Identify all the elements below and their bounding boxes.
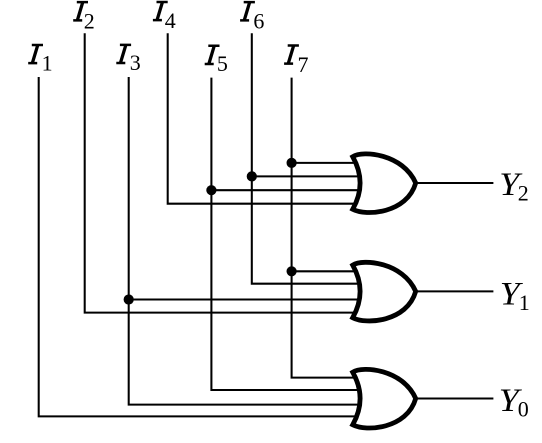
svg-text:0: 0 [518, 396, 529, 421]
svg-text:5: 5 [217, 51, 228, 76]
or-gate Y2 [353, 154, 416, 213]
junction dot I5/Y2 [206, 185, 216, 195]
wire I6 vertical + horizontal to OR gate Y1 input 2 [252, 33, 363, 283]
wire I6 branch to OR gate Y2 input 2 [252, 175, 363, 177]
junction dot I6/Y2 [247, 171, 257, 181]
wire I5 vertical + horizontal to OR gate Y0 input 2 [211, 78, 363, 390]
or-gate Y1 [353, 262, 416, 321]
label I6 [240, 1, 255, 22]
label I4 [153, 1, 168, 22]
svg-text:2: 2 [518, 180, 529, 205]
wire I7 branch to OR gate Y1 input 1 [292, 270, 363, 272]
wire output Y1 [413, 290, 493, 292]
wire I1 vertical + horizontal to OR gate Y0 input 4 [39, 77, 363, 416]
wire I3 branch to OR gate Y1 input 3 [129, 298, 363, 300]
junction dot I7/Y1 [287, 266, 297, 276]
svg-text:4: 4 [165, 8, 176, 33]
junction dot I7/Y2 [287, 158, 297, 168]
wire output Y2 [413, 182, 493, 184]
label I5 [205, 44, 220, 65]
junction dot I3/Y1 [124, 294, 134, 304]
label I3 [116, 44, 131, 65]
svg-text:6: 6 [253, 8, 264, 33]
svg-text:1: 1 [42, 51, 53, 76]
svg-text:2: 2 [84, 8, 95, 33]
label I2 [73, 1, 88, 22]
svg-text:1: 1 [519, 290, 530, 315]
svg-text:3: 3 [130, 50, 141, 75]
label I7 [284, 44, 299, 65]
wire I7 branch to OR gate Y2 input 1 [292, 162, 363, 164]
wire I7 vertical + horizontal to OR gate Y0 input 1 [292, 78, 363, 378]
wire I3 vertical + horizontal to OR gate Y0 input 3 [129, 77, 363, 405]
svg-text:7: 7 [298, 52, 309, 77]
label I1 [28, 44, 43, 65]
or-gate Y0 [353, 369, 416, 428]
wire output Y0 [413, 397, 493, 399]
wire I5 branch to OR gate Y2 input 3 [211, 189, 363, 191]
wire I2 vertical + horizontal to OR gate Y1 input 4 [85, 33, 363, 312]
wire I4 vertical + horizontal to OR gate Y2 input 4 [168, 33, 363, 203]
